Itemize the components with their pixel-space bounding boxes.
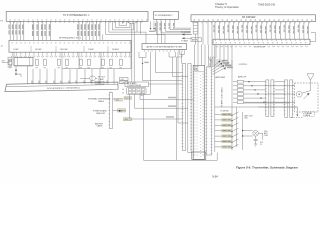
filter box A5 (RF LOW INTERLEAVED FILTER) <box>142 44 187 50</box>
pins below filter box <box>145 50 183 52</box>
connector J1 (TO SYNTHESIZER NO. 1) <box>6 12 148 22</box>
component box at 180,50 <box>180 50 184 55</box>
bracket merge 1 <box>139 54 149 81</box>
label 1 MHZ IN <box>95 81 104 84</box>
funnel output wires to module A3 <box>132 24 134 82</box>
svg-text:J1: J1 <box>1 46 4 48</box>
antenna symbol (right) <box>302 74 314 93</box>
svg-text:TO ANT: TO ANT <box>181 40 189 43</box>
svg-text:1 MHZ: 1 MHZ <box>88 49 95 51</box>
svg-text:TO RCVR: TO RCVR <box>181 32 191 34</box>
dashed antenna assembly boundary <box>295 83 319 112</box>
labels right of board <box>120 78 129 85</box>
label BATTERY CABLE <box>95 123 104 128</box>
svg-text:1 MHZ: 1 MHZ <box>98 79 105 81</box>
svg-text:Figure 5-6. Transmitter, Sche: Figure 5-6. Transmitter, Schematic Diagr… <box>236 165 298 169</box>
label ANT CURRENT <box>245 115 254 120</box>
wires down to synthesizer board <box>33 69 114 85</box>
component A1 below bar left end <box>193 23 198 45</box>
svg-text:CONTROL: CONTROL <box>239 64 248 66</box>
svg-text:10 MHZ: 10 MHZ <box>112 49 120 51</box>
stub wires from filter box pins <box>139 52 182 64</box>
svg-text:10 KHZ: 10 KHZ <box>35 49 42 51</box>
bracket merge 2 <box>169 54 176 77</box>
svg-text:100 KHZ: 100 KHZ <box>60 49 68 51</box>
power tap junctions <box>15 66 27 85</box>
svg-text:1 KHZ: 1 KHZ <box>13 49 19 51</box>
wire x236.7 <box>236 107 238 147</box>
wire x214.8 down to switches <box>214 45 216 152</box>
funnel notch under bar <box>126 21 138 23</box>
fan-out wires with labels <box>213 60 233 75</box>
svg-text:+12V: +12V <box>120 82 125 84</box>
coaxial cable label <box>304 112 315 117</box>
oscillator socket XA3 <box>127 87 147 94</box>
svg-text:TM05-5820-243: TM05-5820-243 <box>258 3 276 6</box>
RF amplifier converter board A2 <box>193 65 204 159</box>
wires to internal cable strips <box>130 100 194 119</box>
svg-text:CABLE: CABLE <box>304 114 311 117</box>
connector (TO SYNTHESIZER NO. 2) <box>154 12 179 20</box>
svg-text:AMPLIFIER: AMPLIFIER <box>216 76 226 79</box>
switch board S1 (frequency select) <box>9 40 131 52</box>
wire group 2 <box>32 21 51 40</box>
svg-text:TO SYNTHESIZER NO. 1: TO SYNTHESIZER NO. 1 <box>63 15 90 17</box>
label P1 <box>1 21 4 48</box>
svg-text:A: A <box>123 88 125 91</box>
coax run <box>258 107 303 118</box>
svg-text:5-14: 5-14 <box>213 175 219 178</box>
feeder horizontals to strips <box>143 54 188 123</box>
wires from small connector <box>155 19 191 34</box>
long wire x176.5 <box>177 55 183 161</box>
capacitor under lamp <box>254 136 258 146</box>
svg-text:TO SYNTHESIZER 2: TO SYNTHESIZER 2 <box>155 15 173 17</box>
resistor pair R1 <box>8 57 13 67</box>
coax connector E1 <box>141 93 151 96</box>
hook wire right of A4 <box>310 33 316 42</box>
connector pair P4/J4 <box>284 80 294 118</box>
switch bus wire <box>242 112 253 150</box>
label POWER BOARD CABLE <box>93 110 107 115</box>
lower cross wires <box>215 103 297 107</box>
svg-text:RF AMPL CONV CABLE: RF AMPL CONV CABLE <box>221 86 224 107</box>
resistor row under S1 <box>9 59 122 65</box>
header: chapter text <box>215 2 239 9</box>
crystal Y1 <box>80 76 106 81</box>
internal cable strip W2 <box>188 64 192 153</box>
svg-text:CUR: CUR <box>264 135 269 137</box>
bus rail lower <box>62 52 131 68</box>
synthesizer board (SYNTHESIZER NO.1 RF BOARD) <box>5 82 118 91</box>
board A2 base <box>192 152 206 159</box>
antenna symbol (mid) <box>208 57 213 68</box>
wire group 3 <box>77 21 100 40</box>
lamp labels <box>264 131 269 137</box>
vertical to coax connector <box>149 54 151 95</box>
indicator lamp DS1 <box>253 131 263 140</box>
nested bus routing <box>106 21 166 43</box>
svg-text:A2 RF: A2 RF <box>194 66 199 69</box>
svg-text:GND: GND <box>124 119 129 121</box>
junction stubs on rail <box>79 52 101 68</box>
P/O J1 labels <box>260 142 264 146</box>
svg-text:A5 RF LOW INTERLEAVED FILTER: A5 RF LOW INTERLEAVED FILTER <box>147 46 183 49</box>
arrow labels TO RCVR <box>181 32 192 42</box>
wire x232 <box>231 60 233 150</box>
svg-text:RF DRIVER: RF DRIVER <box>242 16 256 19</box>
wires to ANT box <box>158 21 162 43</box>
wire tag streaks <box>166 97 176 118</box>
insulator E2 <box>296 91 302 97</box>
pin ticks under J1 <box>10 21 142 23</box>
capacitor C1 arrows <box>149 21 155 32</box>
connector pair P3/J3 <box>265 80 275 117</box>
svg-text:P1: P1 <box>1 21 4 23</box>
+5V tag boxes <box>115 97 132 122</box>
svg-text:CABLE: CABLE <box>97 125 104 128</box>
socket pin labels <box>123 88 125 95</box>
wires from socket <box>130 94 141 119</box>
wires across to antenna connectors <box>244 81 296 103</box>
wire group 1 <box>9 21 24 40</box>
svg-text:CONVERTER A3: CONVERTER A3 <box>127 84 141 87</box>
svg-text:CABLE: CABLE <box>98 100 105 103</box>
svg-text:SYNTHESIZER NO. 1 / RF BOARD: SYNTHESIZER NO. 1 / RF BOARD A1 <box>47 86 80 90</box>
+5V arrow left <box>1 61 9 63</box>
label AMPLIFIER RF <box>216 64 248 79</box>
small box (antenna jack label) <box>191 38 202 42</box>
svg-text:TX MODE: TX MODE <box>220 111 229 113</box>
svg-text:IND: IND <box>245 118 249 120</box>
internal cable strip W1 <box>182 64 186 151</box>
strip J2 stub wires <box>111 92 126 112</box>
svg-text:CABLE W2: CABLE W2 <box>96 112 105 115</box>
wire to bottom rail <box>144 96 218 160</box>
cable strip J2 <box>109 93 113 129</box>
svg-text:B: B <box>123 93 125 95</box>
svg-text:AMPL RF: AMPL RF <box>238 76 247 79</box>
wires from RF DRIVER bar <box>193 22 310 45</box>
resistor column A6 <box>233 80 244 103</box>
svg-text:Theory of Operation: Theory of Operation <box>215 5 239 9</box>
module bar A4 (PA) <box>213 39 310 48</box>
pin loops under S1 <box>11 52 131 57</box>
svg-text:ANT IN: ANT IN <box>192 39 198 42</box>
mode switch rows <box>215 112 239 148</box>
bus tap to RF freq board <box>102 34 104 40</box>
spark gap <box>304 93 310 99</box>
wires from A4 to RF amplifier strips <box>195 45 233 66</box>
internal cable strip W3 <box>205 67 212 155</box>
module bar (RF DRIVER) <box>191 15 316 22</box>
relay box K1 <box>14 58 33 66</box>
svg-text:RF FREQUENCY NO. 1: RF FREQUENCY NO. 1 <box>59 38 82 40</box>
svg-text:1 MHZ: 1 MHZ <box>96 83 102 85</box>
label INTERNAL SYNTHESIZER CABLE <box>88 98 111 103</box>
oscillator module A3 label box <box>125 82 149 87</box>
svg-text:J1: J1 <box>260 144 262 146</box>
